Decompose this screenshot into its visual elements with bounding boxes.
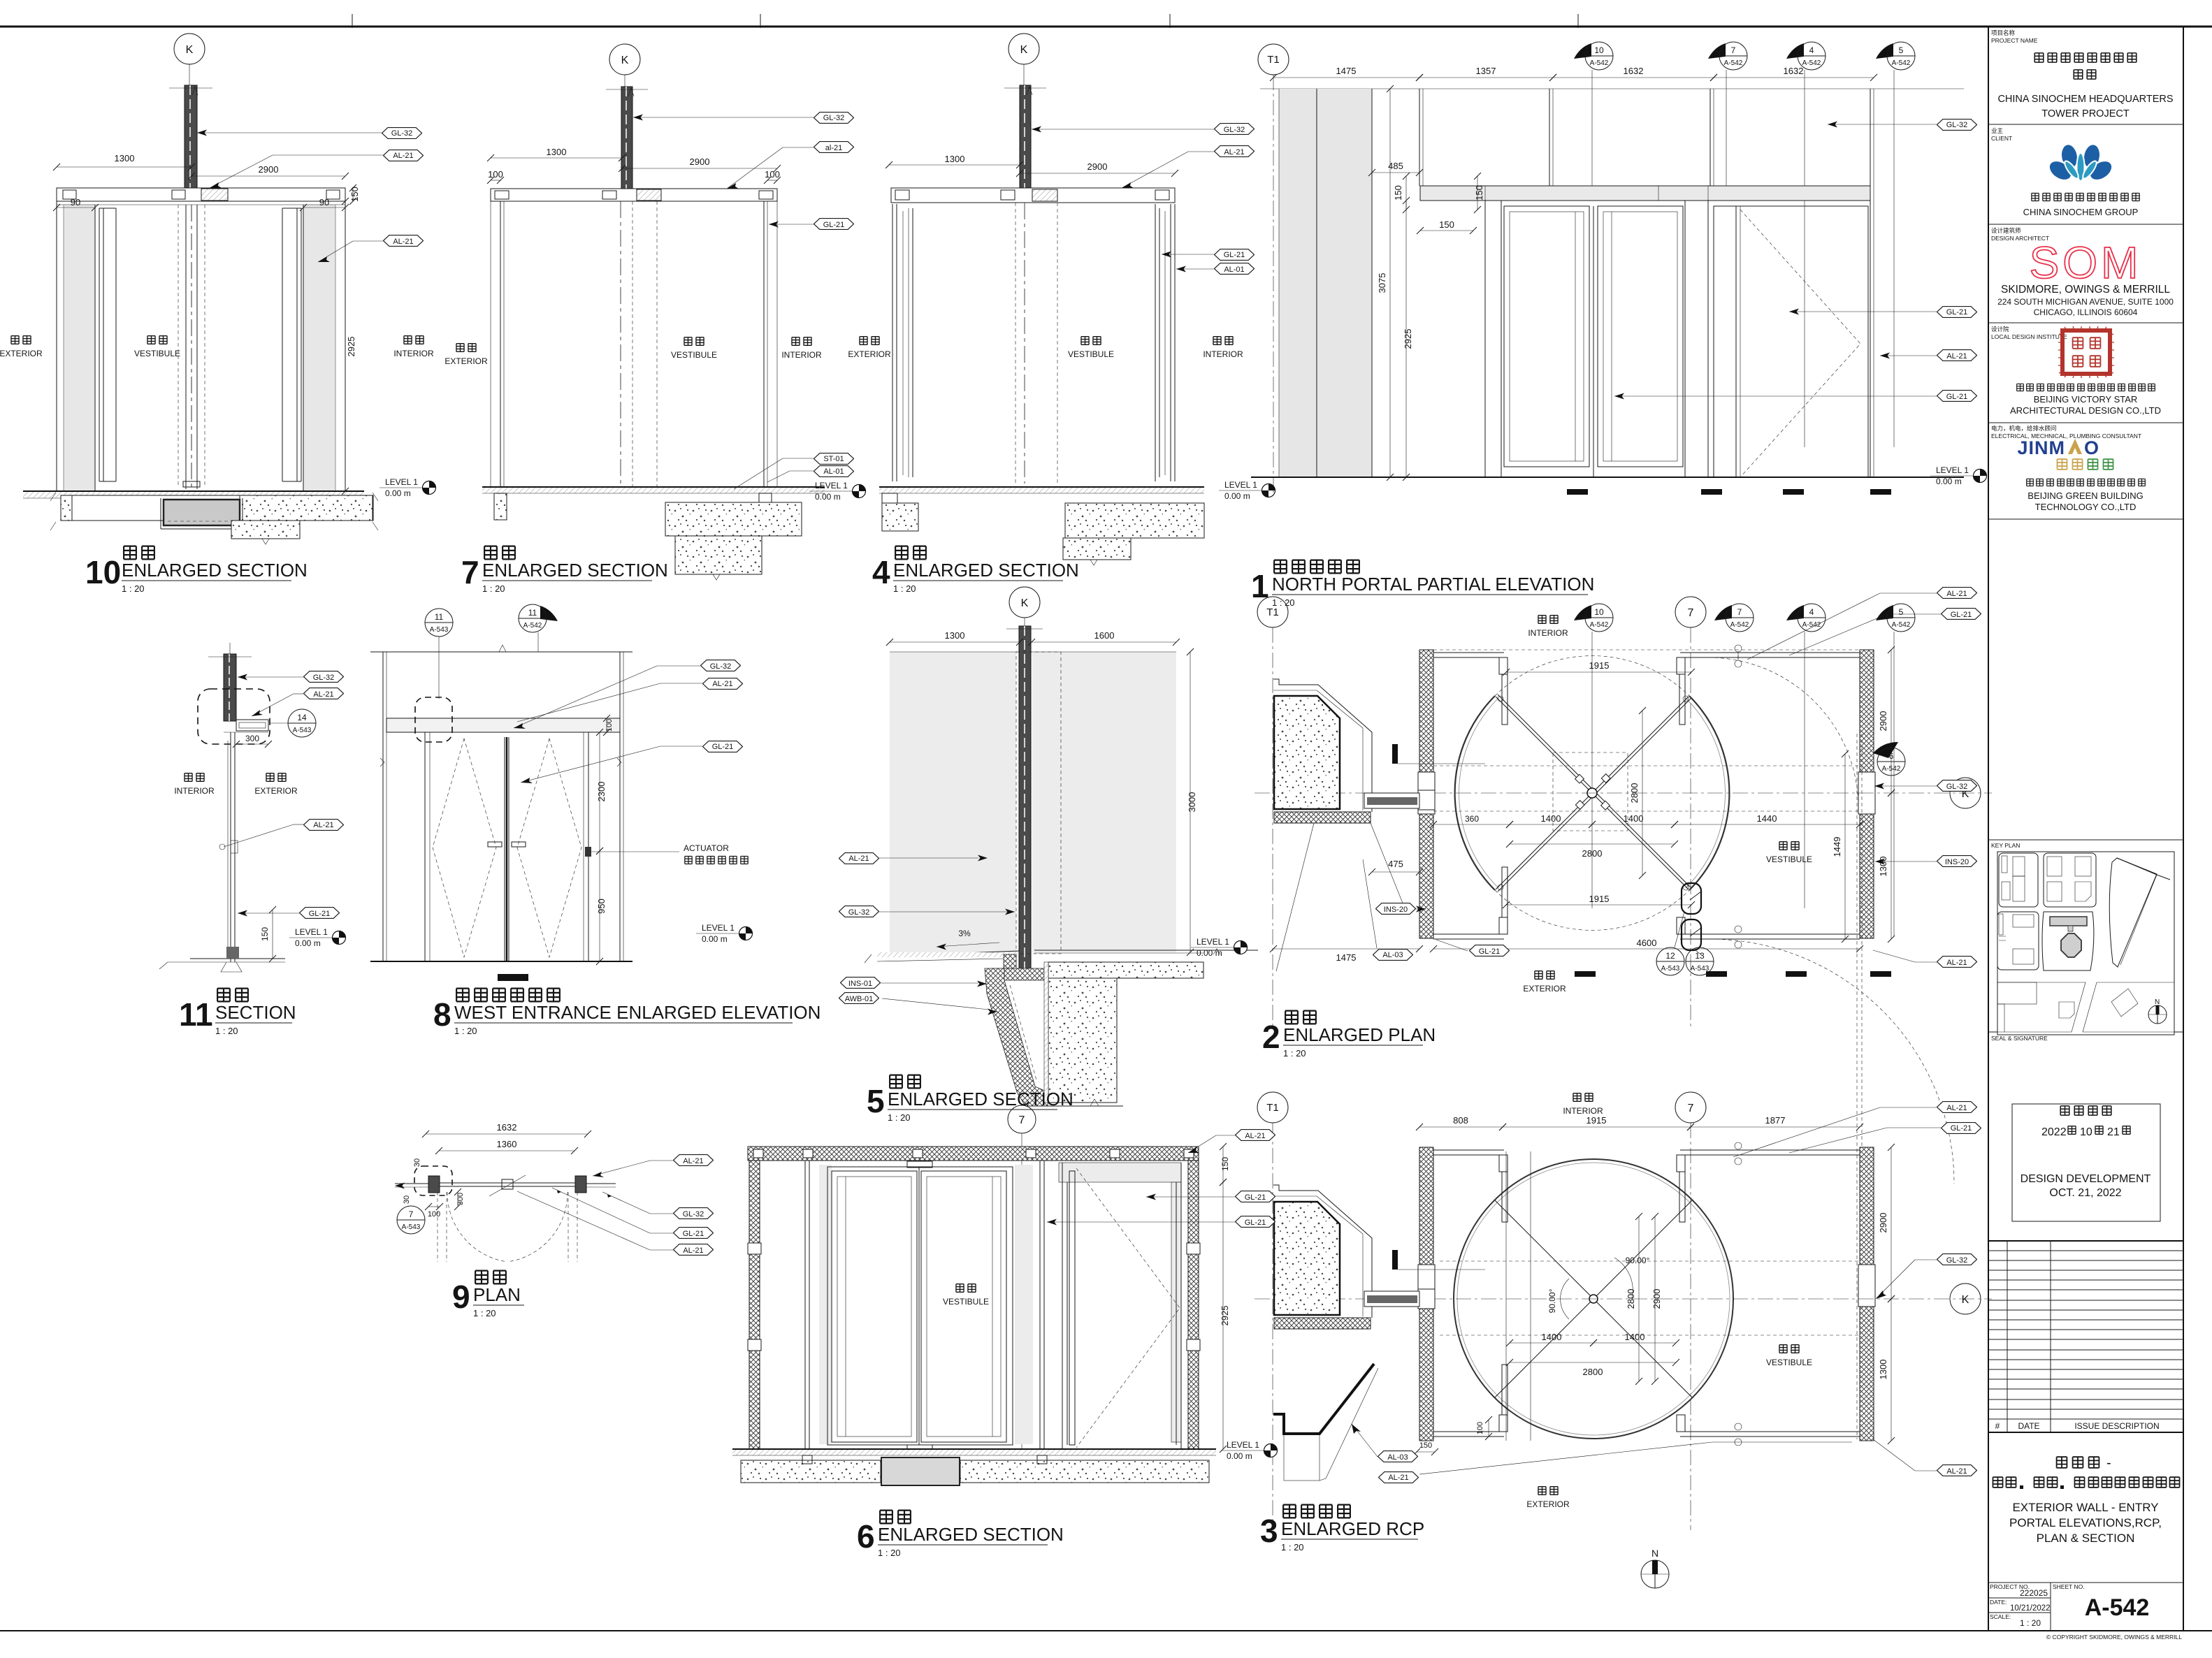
floor line [879, 486, 1204, 488]
svg-text:1400: 1400 [1624, 813, 1644, 824]
right wall hatched [1860, 1147, 1874, 1441]
svg-text:K: K [621, 54, 629, 66]
octagon column [1273, 1185, 1372, 1318]
svg-text:CLIENT: CLIENT [1991, 135, 2012, 142]
door leaf 1 [1504, 206, 1589, 467]
mullion top [224, 654, 236, 721]
svg-text:12: 12 [1665, 951, 1675, 961]
sinochem lotus logo [2045, 143, 2116, 184]
callout 12/A-543 [1656, 947, 1684, 975]
svg-text:100: 100 [1476, 1422, 1484, 1434]
svg-text:INS-20: INS-20 [1945, 858, 1969, 866]
floor [370, 961, 632, 962]
sliding door right jamb [1684, 201, 1686, 477]
svg-text:INTERIOR: INTERIOR [1563, 1106, 1603, 1116]
dim 150 [272, 910, 273, 959]
left mullion [804, 1161, 806, 1449]
text exterior [11, 336, 19, 344]
section cut bar [1392, 744, 1398, 764]
svg-text:T1: T1 [1266, 1102, 1279, 1114]
svg-text:VESTIBULE: VESTIBULE [671, 350, 717, 360]
lower concrete step [231, 521, 300, 539]
svg-text:300: 300 [456, 1193, 465, 1205]
soffit thick edge [1273, 1364, 1374, 1434]
svg-text:1400: 1400 [1625, 1332, 1645, 1342]
svg-text:7: 7 [1688, 607, 1694, 619]
glass panel right [1032, 652, 1176, 952]
text exterior [266, 773, 274, 782]
concrete slab [665, 502, 802, 536]
svg-text:AL-21: AL-21 [1224, 148, 1244, 157]
svg-text:AL-03: AL-03 [1382, 951, 1403, 959]
svg-text:3%: 3% [958, 929, 971, 938]
svg-text:0.00 m: 0.00 m [702, 934, 728, 944]
svg-text:0.00 m: 0.00 m [1224, 491, 1250, 501]
left blocks [882, 493, 897, 503]
label AL-21 [703, 678, 743, 690]
dims top [1419, 1126, 1503, 1128]
dims right [599, 732, 600, 851]
grid bubble 7 [1008, 1105, 1036, 1133]
svg-text:AWB-01: AWB-01 [845, 995, 874, 1003]
svg-text:1 : 20: 1 : 20 [1283, 1048, 1306, 1059]
label ST-01 [814, 453, 854, 465]
label AL-21 [839, 853, 879, 864]
mullion dark [1019, 626, 1031, 974]
svg-text:2: 2 [1262, 1019, 1280, 1055]
header [386, 718, 620, 732]
svg-text:100: 100 [605, 719, 614, 732]
dims middle [1433, 824, 1510, 825]
svg-text:A-542: A-542 [1590, 59, 1609, 67]
floor slab band [61, 495, 373, 521]
wall section vertical [230, 732, 231, 962]
svg-text:10: 10 [1594, 45, 1604, 55]
svg-text:2925: 2925 [346, 337, 356, 357]
svg-text:DATE:: DATE: [1990, 1599, 2007, 1606]
svg-text:1 : 20: 1 : 20 [888, 1112, 911, 1123]
swing dashes [1076, 1168, 1180, 1448]
svg-text:5: 5 [1899, 607, 1904, 617]
swing door dashed [1740, 210, 1860, 477]
svg-text:AL-21: AL-21 [393, 152, 413, 160]
svg-text:AL-21: AL-21 [393, 238, 413, 246]
door frame [425, 732, 588, 961]
svg-text:5: 5 [1899, 45, 1904, 55]
svg-text:2900: 2900 [1878, 711, 1888, 732]
svg-text:GL-32: GL-32 [1946, 783, 1968, 791]
svg-text:VESTIBULE: VESTIBULE [1766, 855, 1812, 864]
dim 1300 [889, 164, 1020, 166]
svg-text:PLAN & SECTION: PLAN & SECTION [2037, 1532, 2135, 1545]
label GL-21 [1215, 249, 1255, 261]
text vestibule [147, 336, 155, 344]
dashed horizontals [1440, 1260, 1859, 1262]
svg-text:2925: 2925 [1403, 329, 1413, 349]
top hatched band [748, 1147, 1199, 1161]
svg-text:11: 11 [528, 608, 537, 618]
glass panel left [890, 652, 1016, 952]
svg-text:1 : 20: 1 : 20 [2020, 1618, 2041, 1628]
svg-text:SKIDMORE, OWINGS & MERRILL: SKIDMORE, OWINGS & MERRILL [2001, 284, 2170, 296]
svg-text:ISSUE DESCRIPTION: ISSUE DESCRIPTION [2074, 1421, 2159, 1431]
svg-text:ENLARGED SECTION: ENLARGED SECTION [888, 1089, 1074, 1110]
gray strip right of door [1015, 1165, 1033, 1444]
svg-text:1300: 1300 [1878, 1360, 1888, 1380]
label GL-32 [1215, 124, 1255, 135]
center block w/ building [2042, 912, 2094, 970]
svg-text:4: 4 [872, 554, 890, 590]
svg-text:3075: 3075 [1377, 273, 1387, 293]
svg-text:GL-32: GL-32 [683, 1210, 704, 1219]
label GL-32 [382, 128, 422, 139]
svg-text:AL-21: AL-21 [683, 1157, 703, 1165]
svg-text:AL-01: AL-01 [823, 467, 844, 476]
header band [57, 188, 345, 201]
svg-text:1 : 20: 1 : 20 [482, 583, 505, 594]
svg-text:1 : 20: 1 : 20 [878, 1548, 901, 1558]
svg-text:1475: 1475 [1336, 952, 1357, 963]
svg-text:K: K [186, 44, 194, 56]
dims right [1891, 1147, 1892, 1299]
panel 5 enlarged section [839, 587, 1259, 1123]
svg-text:VESTIBULE: VESTIBULE [134, 349, 180, 358]
svg-text:360: 360 [1465, 814, 1479, 824]
labels right [674, 1155, 714, 1166]
svg-text:150: 150 [1419, 1441, 1432, 1450]
svg-text:1: 1 [1251, 568, 1269, 604]
svg-text:950: 950 [596, 899, 607, 914]
svg-text:2900: 2900 [1651, 1289, 1662, 1309]
label GL-21 [1937, 307, 1977, 318]
rcp circle [1454, 1159, 1733, 1439]
svg-text:ENLARGED SECTION: ENLARGED SECTION [878, 1524, 1064, 1545]
svg-text:10/21/2022: 10/21/2022 [2010, 1604, 2051, 1613]
dim 1300 [491, 157, 622, 159]
svg-text:10: 10 [85, 554, 121, 590]
flag 6/A-542 right [1873, 742, 1898, 758]
label GL-32 [1937, 119, 1977, 131]
svg-text:SHEET NO.: SHEET NO. [2053, 1583, 2085, 1590]
svg-text:GL-32: GL-32 [1946, 1256, 1968, 1265]
svg-text:KEY PLAN: KEY PLAN [1991, 842, 2020, 849]
thresholds [1575, 971, 1596, 977]
header band [1420, 186, 1870, 201]
door assembly [827, 1167, 1013, 1445]
center dash-dot lines [1255, 792, 1992, 794]
dims [890, 641, 1020, 643]
floor line [482, 486, 825, 488]
svg-text:al-21: al-21 [825, 144, 842, 152]
panel 10 enlarged section [0, 34, 436, 594]
svg-text:GL-21: GL-21 [1951, 1124, 1972, 1133]
svg-text:INTERIOR: INTERIOR [1203, 349, 1243, 359]
svg-text:ENLARGED SECTION: ENLARGED SECTION [482, 560, 668, 581]
left mullion block [428, 1176, 440, 1193]
text interior [1538, 616, 1546, 624]
dashed callout box [415, 697, 452, 742]
svg-text:LEVEL 1: LEVEL 1 [385, 477, 418, 487]
dashed door plane lines [178, 205, 179, 487]
svg-text:150: 150 [260, 927, 270, 941]
svg-text:SECTION: SECTION [215, 1002, 296, 1023]
svg-text:设计院: 设计院 [1991, 326, 2009, 333]
text interior [792, 337, 800, 346]
panel 9 plan [395, 1122, 714, 1318]
text interior [1573, 1093, 1581, 1102]
svg-text:14: 14 [297, 713, 307, 722]
callout 14/A-543 [288, 709, 316, 737]
svg-text:1449: 1449 [1832, 837, 1842, 857]
panel 8 west entrance enlarged elevation [370, 604, 821, 1036]
right mullion block [575, 1176, 586, 1193]
svg-text:AL-01: AL-01 [1224, 266, 1244, 274]
section flag 5 [1876, 605, 1893, 620]
svg-text:11: 11 [435, 612, 444, 622]
panel 6 enlarged section [732, 1105, 1278, 1558]
flag 11/A-542 [540, 606, 558, 621]
labels left [1376, 903, 1416, 915]
svg-text:A-542: A-542 [1892, 59, 1911, 67]
svg-text:INTERIOR: INTERIOR [174, 786, 215, 796]
svg-text:13: 13 [1695, 951, 1705, 961]
concrete footing [1048, 962, 1203, 978]
svg-text:AL-21: AL-21 [313, 690, 333, 699]
svg-text:4: 4 [1809, 45, 1814, 55]
dim 90 left [57, 207, 95, 208]
svg-text:1400: 1400 [1542, 1332, 1562, 1342]
sheet top border [0, 26, 2212, 28]
svg-text:1300: 1300 [945, 154, 965, 164]
svg-text:2900: 2900 [1087, 161, 1108, 172]
svg-text:2900: 2900 [690, 157, 710, 167]
svg-text:AL-21: AL-21 [1946, 590, 1967, 598]
label GL-21 [814, 219, 854, 230]
mullion GL-32 [185, 85, 197, 198]
svg-text:2800: 2800 [1629, 783, 1640, 803]
top dashed interior line [1433, 649, 1860, 650]
svg-text:K: K [1021, 597, 1029, 609]
svg-text:PROJECT NAME: PROJECT NAME [1991, 37, 2038, 44]
text exterior [456, 344, 464, 352]
panel 7 enlarged section [444, 44, 865, 594]
svg-text:A-542: A-542 [523, 622, 542, 630]
wing tip details [1498, 696, 1503, 701]
svg-text:EXTERIOR: EXTERIOR [1526, 1499, 1570, 1509]
svg-text:ENLARGED SECTION: ENLARGED SECTION [122, 560, 308, 581]
svg-text:1915: 1915 [1586, 1115, 1607, 1126]
svg-text:1360: 1360 [497, 1139, 517, 1149]
svg-text:A-542: A-542 [1590, 621, 1609, 629]
svg-text:150: 150 [1474, 185, 1484, 201]
text interior [404, 336, 412, 344]
label GL-21 [300, 908, 340, 919]
svg-text:475: 475 [1388, 859, 1403, 869]
svg-text:AL-21: AL-21 [848, 855, 869, 863]
svg-text:485: 485 [1388, 161, 1403, 171]
dashed outline [1016, 652, 1061, 954]
svg-text:224 SOUTH MICHIGAN AVENUE, SUI: 224 SOUTH MICHIGAN AVENUE, SUITE 1000 [1997, 297, 2174, 307]
svg-text:0.00 m: 0.00 m [385, 488, 411, 498]
dashed callout box [198, 689, 270, 744]
dims center [1510, 1342, 1593, 1344]
svg-text:O: O [2084, 437, 2099, 458]
grid bubble K right [1950, 778, 1981, 808]
wall line left [395, 1183, 428, 1184]
floor [190, 958, 285, 959]
svg-text:9: 9 [452, 1279, 470, 1315]
octagon column [1273, 679, 1372, 812]
svg-text:AL-21: AL-21 [683, 1246, 703, 1255]
svg-text:5: 5 [867, 1083, 885, 1119]
top edge [890, 651, 1176, 653]
svg-text:808: 808 [1453, 1115, 1468, 1126]
svg-text:2900: 2900 [1878, 1213, 1888, 1233]
grid bubble K [174, 34, 205, 64]
svg-text:LEVEL 1: LEVEL 1 [295, 927, 328, 937]
pit box [164, 500, 240, 525]
svg-text:LEVEL 1: LEVEL 1 [702, 923, 735, 933]
svg-text:JINM: JINM [2017, 437, 2065, 458]
right door frame [1155, 204, 1156, 481]
section flag 7 [1708, 43, 1726, 59]
svg-text:T1: T1 [1266, 606, 1279, 618]
dim 90 right [303, 207, 345, 208]
left jamb dashed callout [414, 1166, 452, 1195]
svg-text:1300: 1300 [547, 147, 567, 157]
right vestibule mullion [1039, 1161, 1041, 1449]
leaf 1 dashed diamond [433, 739, 496, 957]
label GL-32 [814, 112, 854, 124]
dashed center lines [620, 201, 621, 489]
top-left interior wall [1433, 1149, 1504, 1151]
svg-text:GL-21: GL-21 [1245, 1193, 1266, 1202]
svg-text:150: 150 [1393, 185, 1403, 201]
svg-text:GL-32: GL-32 [823, 114, 845, 122]
label al-21 [814, 142, 854, 153]
svg-text:1357: 1357 [1476, 66, 1496, 76]
svg-text:ACTUATOR: ACTUATOR [684, 843, 729, 853]
svg-text:LEVEL 1: LEVEL 1 [1227, 1440, 1259, 1450]
mid-left block [1997, 912, 2039, 970]
dim 300 [236, 743, 268, 745]
swing arcs dashed [1708, 657, 1858, 808]
text vestibule [1779, 1345, 1787, 1353]
panel 4 enlarged section [848, 34, 1275, 594]
svg-text:7: 7 [1688, 1103, 1694, 1114]
svg-text:1632: 1632 [497, 1122, 517, 1133]
thresholds [1567, 489, 1588, 495]
dims right [1222, 1147, 1224, 1182]
door leaves center [504, 737, 505, 961]
sheet title [2057, 1455, 2111, 1471]
svg-text:1440: 1440 [1757, 813, 1777, 824]
svg-text:BEIJING GREEN BUILDING: BEIJING GREEN BUILDING [2027, 490, 2143, 501]
grid bubble 7 [1675, 597, 1706, 627]
svg-text:AL-21: AL-21 [1946, 959, 1967, 967]
callout 11/A-543 [425, 609, 453, 637]
pit box [881, 1457, 960, 1485]
grid bubble K [1009, 587, 1040, 618]
svg-text:10: 10 [2080, 1126, 2092, 1138]
label AL-21 mid [304, 820, 344, 831]
dashed swing arcs [447, 1192, 507, 1262]
mullion GL-32 [1020, 85, 1031, 197]
leaf 2 dashed diamond [517, 739, 581, 957]
svg-text:90.00°: 90.00° [1547, 1288, 1557, 1313]
bottom-right interior wall [1680, 1431, 1860, 1432]
svg-text:7: 7 [409, 1209, 414, 1219]
bottom-left interior wall [1433, 933, 1504, 935]
svg-text:1 : 20: 1 : 20 [473, 1308, 496, 1318]
fold tick 2 [760, 14, 761, 28]
dims bottom [1506, 904, 1691, 906]
svg-text:CHINA SINOCHEM GROUP: CHINA SINOCHEM GROUP [2023, 207, 2139, 217]
svg-text:150: 150 [349, 187, 360, 202]
grid bubble 7 [1675, 1092, 1706, 1123]
wall to column connection stub [1418, 790, 1435, 810]
svg-text:0.00 m: 0.00 m [295, 938, 321, 948]
bottom band [1997, 982, 2086, 1032]
svg-text:ENLARGED PLAN: ENLARGED PLAN [1283, 1024, 1436, 1045]
section flag 4 [1786, 43, 1804, 59]
section flag 7 [1714, 605, 1732, 620]
svg-text:8: 8 [433, 996, 451, 1033]
dashed center lines [1015, 203, 1016, 483]
svg-text:1 : 20: 1 : 20 [1281, 1542, 1304, 1552]
section flag 10 [1574, 605, 1591, 620]
svg-text:EXTERIOR: EXTERIOR [444, 356, 488, 366]
svg-text:3: 3 [1260, 1513, 1278, 1549]
svg-text:© COPYRIGHT SKIDMORE, OWINGS &: © COPYRIGHT SKIDMORE, OWINGS & MERRILL [2046, 1634, 2182, 1641]
svg-text:PORTAL ELEVATIONS,RCP,: PORTAL ELEVATIONS,RCP, [2009, 1516, 2162, 1529]
below-floor curb detail [1004, 954, 1016, 968]
glass right [763, 201, 765, 487]
svg-text:LEVEL 1: LEVEL 1 [1197, 937, 1229, 947]
svg-text:N: N [2155, 998, 2160, 1006]
svg-text:EXTERIOR WALL - ENTRY: EXTERIOR WALL - ENTRY [2012, 1501, 2158, 1514]
svg-text:AL-21: AL-21 [1946, 1467, 1967, 1476]
grid bubble T1 [1257, 597, 1288, 627]
swing door area [1059, 1163, 1181, 1182]
svg-text:A-542: A-542 [1802, 59, 1821, 67]
svg-text:0.00 m: 0.00 m [1197, 948, 1222, 958]
svg-text:GL-21: GL-21 [1951, 611, 1972, 619]
svg-text:A-543: A-543 [1661, 965, 1680, 973]
dim 100 [491, 180, 500, 181]
svg-text:AL-21: AL-21 [1388, 1474, 1408, 1482]
left gray column [1279, 89, 1372, 477]
svg-text:EXTERIOR: EXTERIOR [1523, 984, 1566, 994]
dims top [1506, 671, 1691, 673]
svg-text:SOM: SOM [2030, 238, 2142, 288]
handles [488, 842, 502, 847]
label AL-01 [814, 466, 854, 477]
section dividers [1988, 124, 2183, 125]
right door frame [282, 208, 283, 481]
left wall hatched [1419, 1147, 1433, 1441]
svg-text:0.00 m: 0.00 m [815, 492, 841, 502]
dim 2900 [1020, 173, 1175, 174]
small posts below floor [802, 1455, 812, 1464]
floor line [23, 490, 364, 492]
left hatched column [749, 1161, 760, 1449]
svg-text:ELECTRICAL, MECHNICAL, PLUMBIN: ELECTRICAL, MECHNICAL, PLUMBING CONSULTA… [1991, 432, 2141, 439]
svg-text:AL-21: AL-21 [1946, 352, 1967, 361]
svg-text:INTERIOR: INTERIOR [393, 349, 434, 358]
door leaf 2 [1598, 206, 1683, 467]
svg-text:AL-21: AL-21 [1245, 1132, 1265, 1140]
